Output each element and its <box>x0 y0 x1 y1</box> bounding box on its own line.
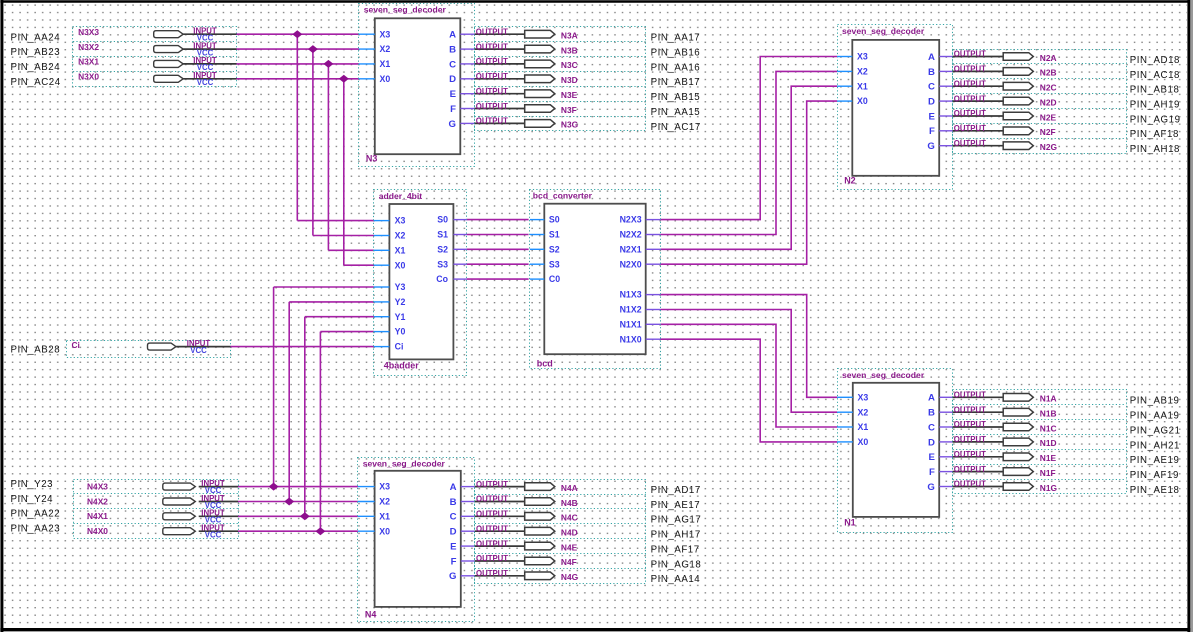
svg-text:OUTPUT: OUTPUT <box>954 65 986 74</box>
svg-text:Y0: Y0 <box>395 327 406 337</box>
svg-text:A: A <box>928 52 935 63</box>
svg-text:N4B: N4B <box>561 498 578 508</box>
svg-text:OUTPUT: OUTPUT <box>954 450 986 459</box>
svg-text:G: G <box>927 141 934 152</box>
svg-text:OUTPUT: OUTPUT <box>476 57 508 66</box>
svg-text:OUTPUT: OUTPUT <box>954 391 986 400</box>
svg-text:N4C: N4C <box>561 513 578 523</box>
svg-text:OUTPUT: OUTPUT <box>476 117 508 126</box>
svg-text:seven_seg_decoder: seven_seg_decoder <box>842 26 925 36</box>
svg-text:N2A: N2A <box>1040 53 1057 63</box>
svg-text:N1B: N1B <box>1040 409 1057 419</box>
svg-text:OUTPUT: OUTPUT <box>954 420 986 429</box>
svg-text:Ci: Ci <box>395 342 404 352</box>
svg-text:E: E <box>450 542 457 553</box>
svg-text:seven_seg_decoder: seven_seg_decoder <box>363 459 446 469</box>
svg-text:PIN_AB16: PIN_AB16 <box>651 48 701 59</box>
svg-text:PIN_AB15: PIN_AB15 <box>651 92 701 103</box>
svg-text:C: C <box>449 59 456 70</box>
svg-text:4badder: 4badder <box>384 361 420 371</box>
svg-text:N2G: N2G <box>1040 142 1057 152</box>
svg-text:PIN_AA24: PIN_AA24 <box>11 32 61 43</box>
svg-text:PIN_AA16: PIN_AA16 <box>651 62 701 73</box>
svg-text:PIN_AC18: PIN_AC18 <box>1130 70 1180 81</box>
svg-text:PIN_AE17: PIN_AE17 <box>651 500 701 511</box>
svg-text:PIN_AH18: PIN_AH18 <box>1130 144 1180 155</box>
svg-text:bcd: bcd <box>537 358 553 368</box>
svg-text:N3X0: N3X0 <box>78 72 99 82</box>
svg-text:A: A <box>449 30 456 41</box>
svg-text:PIN_AH21: PIN_AH21 <box>1130 440 1180 451</box>
svg-text:X2: X2 <box>858 407 869 417</box>
svg-text:X0: X0 <box>379 526 390 536</box>
svg-text:G: G <box>449 119 456 130</box>
svg-text:OUTPUT: OUTPUT <box>954 405 986 414</box>
svg-text:N4G: N4G <box>561 572 578 582</box>
svg-text:N3X1: N3X1 <box>78 57 99 67</box>
svg-text:S0: S0 <box>549 215 560 225</box>
svg-text:N1X0: N1X0 <box>620 334 642 344</box>
svg-text:OUTPUT: OUTPUT <box>476 480 508 489</box>
svg-text:F: F <box>450 104 456 115</box>
svg-text:N4D: N4D <box>561 528 578 538</box>
svg-text:PIN_AA14: PIN_AA14 <box>651 574 701 585</box>
svg-text:X0: X0 <box>858 437 869 447</box>
svg-text:D: D <box>928 97 935 108</box>
svg-text:OUTPUT: OUTPUT <box>476 102 508 111</box>
svg-text:C: C <box>928 422 935 433</box>
svg-text:OUTPUT: OUTPUT <box>954 465 986 474</box>
svg-text:PIN_AD17: PIN_AD17 <box>651 485 701 496</box>
svg-text:N1X1: N1X1 <box>620 319 642 329</box>
svg-text:VCC: VCC <box>205 531 222 540</box>
svg-text:N1F: N1F <box>1040 468 1056 478</box>
svg-text:N4X3: N4X3 <box>87 481 108 491</box>
svg-text:PIN_AB17: PIN_AB17 <box>651 77 701 88</box>
svg-text:N2F: N2F <box>1040 127 1056 137</box>
svg-text:N2C: N2C <box>1040 83 1057 93</box>
svg-text:OUTPUT: OUTPUT <box>954 50 986 59</box>
svg-text:N4E: N4E <box>561 542 578 552</box>
svg-text:PIN_AF19: PIN_AF19 <box>1130 470 1179 481</box>
svg-text:S2: S2 <box>437 244 448 254</box>
svg-text:X3: X3 <box>857 52 868 62</box>
svg-text:N1D: N1D <box>1040 438 1057 448</box>
svg-text:seven_seg_decoder: seven_seg_decoder <box>364 5 447 15</box>
svg-text:D: D <box>928 437 935 448</box>
svg-text:OUTPUT: OUTPUT <box>954 435 986 444</box>
svg-text:S1: S1 <box>549 230 560 240</box>
svg-text:N1G: N1G <box>1040 483 1057 493</box>
svg-text:N3B: N3B <box>561 45 578 55</box>
svg-text:N2E: N2E <box>1040 112 1057 122</box>
svg-text:C: C <box>450 512 457 523</box>
svg-text:OUTPUT: OUTPUT <box>954 139 986 148</box>
svg-text:PIN_AB23: PIN_AB23 <box>11 47 61 58</box>
svg-text:PIN_AE19: PIN_AE19 <box>1130 455 1180 466</box>
svg-text:PIN_AF17: PIN_AF17 <box>651 545 700 556</box>
svg-text:X2: X2 <box>857 67 868 77</box>
svg-text:F: F <box>929 126 935 137</box>
svg-text:E: E <box>928 452 935 463</box>
svg-text:OUTPUT: OUTPUT <box>476 42 508 51</box>
svg-text:S3: S3 <box>549 259 560 269</box>
svg-text:N4X2: N4X2 <box>87 496 108 506</box>
svg-text:Y1: Y1 <box>395 312 406 322</box>
svg-text:PIN_AB24: PIN_AB24 <box>11 62 61 73</box>
svg-text:bcd_converter: bcd_converter <box>533 191 593 201</box>
svg-text:OUTPUT: OUTPUT <box>476 554 508 563</box>
svg-text:seven_seg_decoder: seven_seg_decoder <box>842 370 925 380</box>
svg-text:PIN_Y23: PIN_Y23 <box>11 479 54 490</box>
svg-text:N2: N2 <box>844 176 856 186</box>
svg-text:OUTPUT: OUTPUT <box>476 72 508 81</box>
svg-text:N1A: N1A <box>1040 394 1057 404</box>
svg-text:PIN_AA17: PIN_AA17 <box>651 33 701 44</box>
svg-text:N3C: N3C <box>561 60 578 70</box>
svg-text:VCC: VCC <box>197 78 214 87</box>
svg-text:PIN_AG19: PIN_AG19 <box>1130 114 1181 125</box>
svg-text:N4X0: N4X0 <box>87 526 108 536</box>
svg-text:OUTPUT: OUTPUT <box>954 480 986 489</box>
svg-text:N4X1: N4X1 <box>87 511 108 521</box>
svg-text:N4A: N4A <box>561 483 578 493</box>
svg-text:PIN_AA22: PIN_AA22 <box>11 509 61 520</box>
svg-text:G: G <box>449 571 456 582</box>
svg-text:PIN_AB28: PIN_AB28 <box>11 345 61 356</box>
svg-text:Co: Co <box>436 274 448 284</box>
svg-text:N3D: N3D <box>561 75 578 85</box>
svg-text:F: F <box>451 556 457 567</box>
svg-text:N2X2: N2X2 <box>620 230 642 240</box>
svg-text:C0: C0 <box>549 274 560 284</box>
svg-text:X0: X0 <box>857 96 868 106</box>
svg-text:PIN_AB18: PIN_AB18 <box>1130 85 1180 96</box>
svg-text:E: E <box>928 111 935 122</box>
svg-text:OUTPUT: OUTPUT <box>954 94 986 103</box>
svg-text:PIN_AG17: PIN_AG17 <box>651 515 702 526</box>
svg-text:OUTPUT: OUTPUT <box>954 109 986 118</box>
svg-text:N1X2: N1X2 <box>620 305 642 315</box>
svg-text:G: G <box>927 482 934 493</box>
svg-text:Y3: Y3 <box>395 282 406 292</box>
svg-text:OUTPUT: OUTPUT <box>476 539 508 548</box>
svg-text:X0: X0 <box>395 260 406 270</box>
svg-text:A: A <box>450 482 457 493</box>
svg-text:X1: X1 <box>380 59 391 69</box>
svg-text:N3: N3 <box>366 154 378 164</box>
svg-text:OUTPUT: OUTPUT <box>476 495 508 504</box>
svg-text:X0: X0 <box>380 74 391 84</box>
svg-text:PIN_AC24: PIN_AC24 <box>11 77 61 88</box>
svg-text:B: B <box>928 67 935 78</box>
svg-text:N3G: N3G <box>561 120 578 130</box>
svg-text:N3A: N3A <box>561 31 578 41</box>
svg-text:PIN_AH17: PIN_AH17 <box>651 530 701 541</box>
svg-text:X1: X1 <box>395 245 406 255</box>
svg-text:N3X3: N3X3 <box>78 27 99 37</box>
svg-text:OUTPUT: OUTPUT <box>476 524 508 533</box>
svg-text:Ci: Ci <box>72 340 80 350</box>
svg-text:OUTPUT: OUTPUT <box>476 87 508 96</box>
svg-text:PIN_AF18: PIN_AF18 <box>1130 129 1179 140</box>
svg-text:N3F: N3F <box>561 105 577 115</box>
svg-text:PIN_AG21: PIN_AG21 <box>1130 425 1181 436</box>
svg-text:N1: N1 <box>844 518 856 528</box>
svg-text:N2X3: N2X3 <box>620 215 642 225</box>
svg-text:PIN_AH19: PIN_AH19 <box>1130 100 1180 111</box>
svg-text:B: B <box>450 497 457 508</box>
svg-text:N3X2: N3X2 <box>78 42 99 52</box>
svg-text:PIN_AE18: PIN_AE18 <box>1130 485 1180 496</box>
svg-text:X3: X3 <box>395 216 406 226</box>
svg-text:X1: X1 <box>379 511 390 521</box>
svg-text:PIN_AA15: PIN_AA15 <box>651 107 701 118</box>
svg-text:PIN_AA23: PIN_AA23 <box>11 524 61 535</box>
svg-text:X2: X2 <box>379 497 390 507</box>
svg-text:X1: X1 <box>858 422 869 432</box>
svg-text:N4: N4 <box>365 610 377 620</box>
svg-text:C: C <box>928 82 935 93</box>
svg-text:PIN_Y24: PIN_Y24 <box>11 494 54 505</box>
svg-text:X2: X2 <box>380 44 391 54</box>
svg-text:S2: S2 <box>549 244 560 254</box>
svg-text:S1: S1 <box>437 230 448 240</box>
svg-text:S0: S0 <box>437 215 448 225</box>
svg-text:S3: S3 <box>437 259 448 269</box>
svg-text:D: D <box>450 527 457 538</box>
svg-text:PIN_AA19: PIN_AA19 <box>1130 411 1180 422</box>
svg-text:X2: X2 <box>395 231 406 241</box>
svg-text:N2X1: N2X1 <box>620 244 642 254</box>
svg-text:N2B: N2B <box>1040 68 1057 78</box>
svg-text:PIN_AG18: PIN_AG18 <box>651 559 702 570</box>
svg-text:F: F <box>929 467 935 478</box>
svg-text:N3E: N3E <box>561 90 578 100</box>
svg-text:D: D <box>449 74 456 85</box>
svg-text:OUTPUT: OUTPUT <box>476 510 508 519</box>
svg-text:PIN_AD18: PIN_AD18 <box>1130 55 1180 66</box>
svg-text:E: E <box>450 89 457 100</box>
svg-text:N1E: N1E <box>1040 453 1057 463</box>
svg-text:A: A <box>928 393 935 404</box>
svg-text:PIN_AC17: PIN_AC17 <box>651 122 701 133</box>
svg-text:X3: X3 <box>380 29 391 39</box>
svg-text:OUTPUT: OUTPUT <box>954 124 986 133</box>
svg-text:N1C: N1C <box>1040 423 1057 433</box>
svg-text:B: B <box>928 408 935 419</box>
svg-text:X3: X3 <box>858 392 869 402</box>
svg-text:N2D: N2D <box>1040 97 1057 107</box>
svg-text:B: B <box>449 45 456 56</box>
svg-text:Y2: Y2 <box>395 297 406 307</box>
svg-text:VCC: VCC <box>190 346 207 355</box>
svg-text:OUTPUT: OUTPUT <box>476 27 508 36</box>
svg-text:PIN_AB19: PIN_AB19 <box>1130 396 1180 407</box>
svg-text:N2X0: N2X0 <box>620 259 642 269</box>
svg-text:OUTPUT: OUTPUT <box>954 79 986 88</box>
svg-text:OUTPUT: OUTPUT <box>476 569 508 578</box>
svg-text:X3: X3 <box>379 482 390 492</box>
svg-text:N1X3: N1X3 <box>620 290 642 300</box>
svg-text:N4F: N4F <box>561 557 577 567</box>
svg-text:adder_4bit: adder_4bit <box>379 191 423 201</box>
svg-text:X1: X1 <box>857 81 868 91</box>
